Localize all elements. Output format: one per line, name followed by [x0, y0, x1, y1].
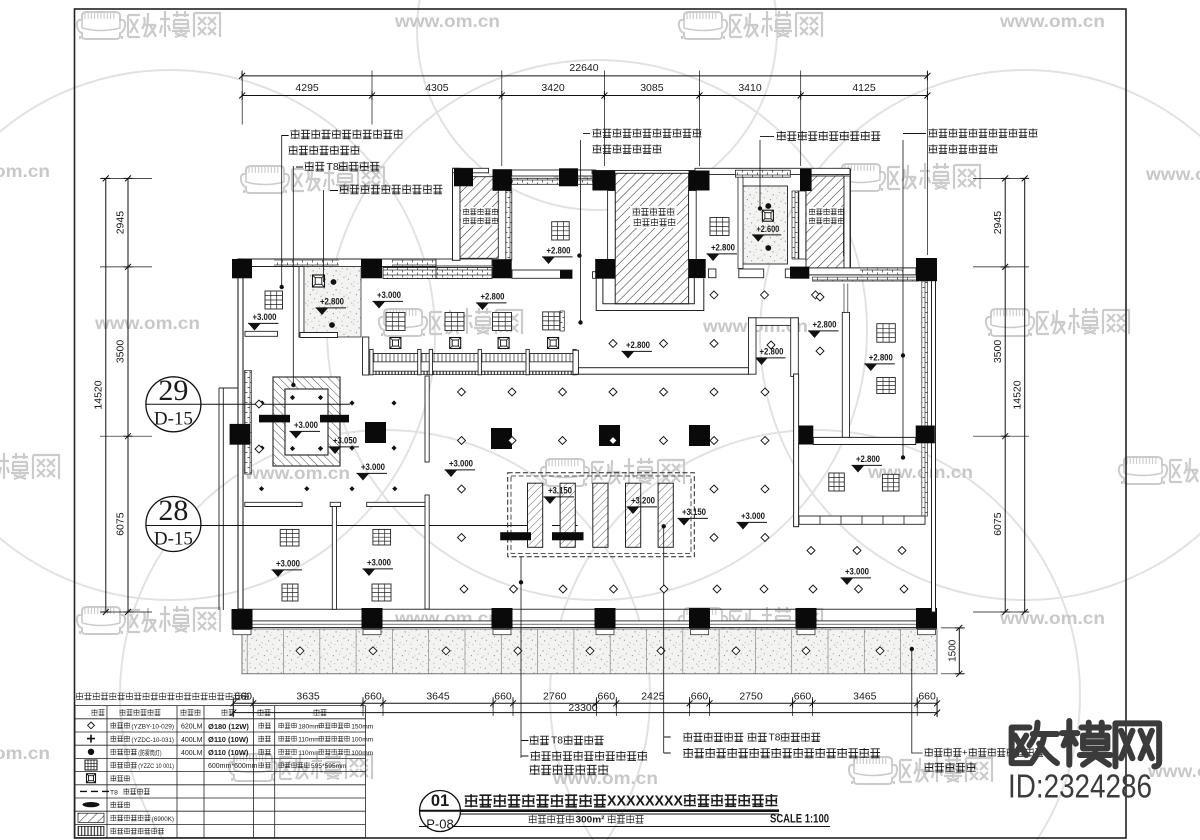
bottom storefront glazing	[242, 608, 931, 610]
svg-text:110mm: 110mm	[298, 750, 320, 757]
bottom wall columns	[232, 608, 938, 630]
central lightbox dashed boundary	[508, 473, 695, 557]
svg-text:2425: 2425	[641, 691, 665, 703]
title area text	[529, 815, 575, 824]
partition x334	[332, 507, 336, 610]
grille lamp panel	[280, 529, 299, 546]
svg-text:3410: 3410	[738, 82, 762, 94]
svg-text:+2.800: +2.800	[320, 297, 344, 307]
right overall dimension 14520	[1011, 175, 1029, 615]
svg-text:2945: 2945	[992, 211, 1004, 235]
legend row 2	[88, 749, 94, 755]
svg-text:14520: 14520	[1011, 380, 1023, 409]
elevation label +2.800	[542, 246, 573, 264]
svg-text:www.om.cn: www.om.cn	[999, 608, 1105, 628]
svg-text:+2.800: +2.800	[547, 246, 571, 256]
feature ceiling outer square hatched	[273, 377, 340, 466]
svg-text:660: 660	[794, 691, 812, 703]
svg-text:+3.000: +3.000	[253, 312, 277, 322]
svg-text:2945: 2945	[115, 211, 127, 235]
grille lamp panel	[710, 218, 729, 236]
svg-text:T8: T8	[551, 736, 563, 747]
svg-text:3465: 3465	[853, 691, 877, 703]
top-left exterior wall	[242, 259, 436, 267]
stairwell hatched - not in scope	[615, 173, 688, 303]
svg-text:www.om.cn: www.om.cn	[1145, 164, 1200, 184]
drawing title text	[465, 794, 607, 807]
svg-text:(YZZC 10 001): (YZZC 10 001)	[138, 763, 174, 770]
svg-text:+2.800: +2.800	[856, 454, 880, 464]
elevation label +2.600	[752, 224, 781, 242]
svg-text:100mm: 100mm	[351, 737, 373, 744]
svg-text:3420: 3420	[541, 82, 565, 94]
svg-text:www.om.cn: www.om.cn	[0, 743, 50, 763]
right 1500 dimension	[941, 625, 965, 677]
annotation bottom 1b: gypsum ceiling white paint	[531, 751, 648, 761]
svg-text:+2.800: +2.800	[813, 320, 837, 330]
top overall dimension 22640	[239, 62, 930, 80]
legend row 8	[78, 826, 104, 835]
annotation bottom 1: concealed T8 tube	[522, 741, 529, 757]
right toilet block top wall	[695, 168, 850, 174]
svg-text:660: 660	[494, 691, 512, 703]
svg-text:SCALE 1:100: SCALE 1:100	[770, 814, 829, 826]
counter posts	[370, 349, 576, 374]
elevation label +2.800	[476, 292, 507, 310]
svg-text:+3.000: +3.000	[845, 567, 869, 577]
leader to bottom annotation 2	[663, 526, 665, 753]
svg-text:+3.000: +3.000	[377, 290, 401, 300]
right segment dimension line	[992, 175, 1010, 615]
svg-text:T8: T8	[110, 790, 118, 797]
counter bottom rail hatched	[371, 371, 578, 374]
grille lamp panel	[552, 222, 570, 240]
left segment dimension line	[115, 175, 133, 615]
left exterior wall	[238, 259, 243, 609]
feature ceiling inner panel	[285, 389, 328, 455]
toilet partition wall	[506, 191, 512, 260]
svg-text:3635: 3635	[296, 691, 320, 703]
watermark row 1	[77, 11, 220, 39]
elevation label +3.000	[373, 290, 404, 308]
stair block bottom landing frame	[596, 278, 704, 310]
svg-text:www.om.cn: www.om.cn	[999, 11, 1105, 31]
grille lamp panel	[493, 313, 512, 331]
svg-text:595*595mm: 595*595mm	[311, 763, 347, 770]
left dimension extension lines	[100, 178, 152, 612]
stair block top wall	[592, 171, 710, 174]
partition x427	[425, 376, 429, 462]
svg-text:300m²: 300m²	[576, 814, 605, 825]
bottom dimension extension lines	[233, 697, 937, 716]
svg-text:400LM: 400LM	[181, 750, 203, 757]
elevation label +2.800	[707, 243, 738, 261]
grille lamp panel	[265, 291, 283, 309]
right room partition	[842, 312, 849, 437]
annotation bottom 2: white luminous membrane with T8	[664, 737, 671, 753]
downlight dots in lobby	[331, 279, 337, 285]
watermark row 5	[77, 606, 220, 634]
bottom overall dimension 23300	[230, 702, 940, 717]
leader lines with reference dots	[282, 135, 903, 457]
svg-text:D-15: D-15	[154, 529, 193, 550]
hall downlight grid	[710, 291, 718, 299]
note: rolling shutters aluminium louvres	[76, 692, 250, 700]
right toilet right wall	[844, 176, 850, 268]
legend row 7	[78, 813, 104, 822]
svg-text:22640: 22640	[569, 62, 598, 74]
svg-text:(防雾筒灯): (防雾筒灯)	[138, 748, 161, 757]
small downlights around feature	[290, 395, 295, 400]
svg-text:3645: 3645	[426, 691, 450, 703]
paving joints	[247, 629, 900, 674]
toilet room left wall	[738, 175, 743, 269]
svg-text:29: 29	[158, 374, 188, 407]
svg-text:660: 660	[918, 691, 936, 703]
right toilet room label	[807, 207, 843, 226]
grille lamp panel	[386, 313, 405, 331]
legend header	[91, 709, 104, 715]
svg-text:+: +	[962, 748, 968, 759]
right room storefront window	[799, 516, 925, 524]
toilet partition brick wall	[792, 191, 798, 259]
svg-text:2750: 2750	[739, 691, 763, 703]
left overall dimension 14520	[93, 175, 111, 615]
title block lines	[419, 809, 779, 812]
grille lamp panel	[877, 378, 896, 394]
svg-text:www.om.cn: www.om.cn	[394, 11, 500, 31]
annotation top-left: concealed T8 tube	[282, 136, 338, 191]
svg-text:+2.800: +2.800	[869, 353, 893, 363]
svg-text:(YZDC-10-031): (YZDC-10-031)	[131, 737, 174, 744]
legend row 4	[87, 774, 96, 783]
elevation label +2.800	[808, 320, 839, 338]
elevation label +3.000	[363, 558, 394, 576]
hall access panels	[390, 338, 401, 349]
svg-text:660: 660	[364, 691, 382, 703]
stair block east wall	[689, 191, 697, 262]
elevation label +3.000	[248, 312, 279, 330]
downlight dots	[765, 203, 771, 209]
svg-text:180mm: 180mm	[298, 723, 320, 730]
elevation label +2.800	[852, 454, 883, 472]
section marker circle 28 D-15	[146, 494, 531, 552]
svg-text:400LM: 400LM	[181, 737, 203, 744]
svg-text:+3.000: +3.000	[367, 558, 391, 568]
right toilet hatched room	[806, 176, 844, 268]
lightbox slats hatched	[528, 483, 543, 547]
left toilet block top wall	[453, 168, 489, 173]
annotation top-mid: toilet moistureproof ceiling	[777, 131, 881, 141]
annotation top-left: toilet moistureproof ceiling	[340, 184, 443, 194]
wall segment corridor south	[512, 270, 572, 278]
svg-text:4125: 4125	[852, 82, 876, 94]
svg-text:110mm: 110mm	[298, 737, 320, 744]
svg-text:P-08: P-08	[426, 817, 453, 832]
grille lamp panel	[543, 312, 560, 330]
svg-text:660: 660	[691, 691, 709, 703]
svg-text:600mm*600mm: 600mm*600mm	[208, 763, 258, 770]
right toilet duct recess	[844, 208, 850, 256]
svg-text:XXXXXXXX: XXXXXXXX	[607, 793, 683, 809]
svg-text:23300: 23300	[568, 702, 597, 714]
pier below toilet block	[560, 311, 564, 331]
elevation label +2.800	[622, 340, 653, 358]
svg-text:www.om.cn: www.om.cn	[94, 313, 200, 333]
elevation label +3.000	[290, 420, 321, 438]
svg-text:4295: 4295	[295, 82, 319, 94]
legend row 6	[83, 802, 100, 807]
svg-text:ID:2324286: ID:2324286	[1008, 768, 1152, 805]
svg-text:620LM: 620LM	[181, 724, 203, 731]
annotation top-right: gypsum board ceiling	[929, 128, 1038, 137]
toilet top wall brick	[735, 170, 790, 177]
annotation top-center: gypsum board ceiling	[593, 128, 702, 137]
svg-text:1500: 1500	[947, 639, 958, 662]
svg-text:28: 28	[158, 494, 188, 527]
elevation label +3.150	[544, 486, 575, 504]
right exterior wall outer line	[932, 279, 936, 612]
svg-text:+3.000: +3.000	[276, 559, 300, 569]
access panel symbol	[313, 275, 325, 287]
legend row 1	[87, 735, 95, 743]
svg-text:+2.600: +2.600	[757, 224, 780, 234]
svg-text:150mm: 150mm	[351, 723, 373, 730]
svg-text:+2.800: +2.800	[626, 340, 650, 350]
wall stub left of counter	[363, 337, 369, 375]
svg-text:+3.150: +3.150	[548, 486, 572, 496]
column bases	[233, 630, 936, 635]
svg-text:6075: 6075	[992, 512, 1004, 536]
svg-text:+3.000: +3.000	[361, 462, 385, 472]
leader to bottom annotation 3	[912, 649, 923, 753]
small room walls	[749, 318, 799, 326]
top-right bulkhead band	[813, 277, 919, 281]
wall band below top-left wall	[383, 268, 455, 279]
elevation label +2.800	[864, 353, 895, 371]
wall y334 segments	[245, 331, 338, 337]
svg-text:T8: T8	[327, 161, 339, 173]
svg-text:+3.000: +3.000	[741, 511, 765, 521]
svg-text:Ø110 (10W): Ø110 (10W)	[208, 735, 249, 744]
fan symbol	[762, 210, 773, 221]
svg-text:(6900K): (6900K)	[152, 816, 174, 823]
svg-text:www.om.cn: www.om.cn	[552, 768, 658, 788]
wall segments south of right corridor	[708, 269, 716, 278]
elevation label +2.800	[316, 297, 347, 315]
svg-text:Ø180 (12W): Ø180 (12W)	[208, 722, 249, 731]
grille lamp panel	[373, 529, 391, 545]
elevation label +3.200	[627, 496, 658, 514]
left wall bulkhead strip	[245, 370, 252, 474]
legend row 5	[80, 790, 109, 792]
elevation label +3.000	[272, 559, 303, 577]
svg-text:+2.800: +2.800	[481, 292, 505, 302]
svg-text:660: 660	[598, 691, 616, 703]
svg-text:3500: 3500	[115, 340, 127, 364]
elevation label +3.000	[737, 511, 768, 529]
elevation label +3.150	[678, 507, 709, 525]
svg-text:+3.000: +3.000	[449, 459, 473, 469]
svg-text:www.om.cn: www.om.cn	[0, 161, 50, 181]
legend table grid	[75, 706, 366, 838]
stippled lobby room +2.800	[304, 267, 361, 338]
watermark row 4	[0, 453, 59, 481]
svg-text:100mm: 100mm	[351, 750, 373, 757]
bottom segment dimension line	[230, 691, 940, 708]
top dimension extension lines	[242, 71, 927, 256]
legend row 0	[88, 722, 95, 729]
grille lamp panel	[445, 313, 464, 331]
elevation label +3.000	[445, 459, 476, 477]
right dimension extension lines	[973, 178, 1029, 612]
grille lamp panel	[829, 473, 845, 491]
svg-text:14520: 14520	[93, 380, 105, 409]
svg-text:4305: 4305	[425, 82, 449, 94]
elevation label +3.000	[357, 462, 388, 480]
leader to bottom annotation 1	[520, 557, 522, 758]
svg-text:+2.800: +2.800	[711, 243, 735, 253]
annotation bottom 3: angle steel base aluminium panel	[925, 748, 962, 757]
wall y504 segments	[245, 502, 427, 506]
toilet room stippled +2.600	[743, 186, 788, 264]
drawing number circle 01 P-08	[420, 791, 461, 832]
svg-text:D-15: D-15	[154, 409, 193, 430]
toilet room hatched - not in scope	[460, 177, 498, 259]
section marker circle 29 D-15	[146, 374, 350, 432]
section line 28 extra segment	[552, 525, 578, 527]
grille lamp panel	[372, 584, 391, 601]
svg-text:01: 01	[431, 792, 449, 810]
svg-text:Ø110 (10W): Ø110 (10W)	[208, 748, 249, 757]
toilet room label	[461, 207, 497, 226]
pilaster lines outside left wall	[219, 388, 238, 610]
right exterior wall brick strip	[922, 281, 928, 516]
svg-text:(YZBY-10-029): (YZBY-10-029)	[131, 724, 174, 731]
stairwell label	[630, 206, 677, 228]
counter top rail hatched	[371, 354, 578, 362]
feature black light bars	[259, 415, 290, 423]
elevation label +3.000	[841, 567, 872, 585]
long interior wall	[578, 368, 748, 375]
svg-text:3500: 3500	[992, 340, 1004, 364]
stair block west wall	[608, 191, 616, 262]
annotation top-left: gypsum board ceiling	[291, 129, 403, 139]
top-right exterior wall	[794, 268, 916, 275]
svg-text:+3.150: +3.150	[682, 507, 706, 517]
svg-text:T8: T8	[769, 733, 781, 744]
partition wall vertical x300	[299, 267, 304, 338]
right block west wall	[794, 374, 799, 527]
left toilet block left wall	[453, 168, 461, 260]
counter middle band	[371, 362, 578, 371]
svg-text:+3.200: +3.200	[631, 496, 655, 506]
downlights in band	[296, 647, 304, 655]
wall left of toilet block	[436, 259, 492, 266]
grille lamp panel	[877, 324, 896, 343]
legend row 3	[85, 760, 97, 770]
columns mid row y435	[230, 422, 935, 449]
annotation bottom 2b: gypsum ceiling white paint	[683, 748, 880, 758]
svg-text:3085: 3085	[640, 82, 664, 94]
svg-text:6075: 6075	[115, 512, 127, 536]
columns at mid-wall line y267	[232, 258, 937, 281]
exterior paved band with stipple	[242, 629, 937, 674]
structural columns upper blocks	[454, 168, 812, 278]
svg-text:+3.000: +3.000	[294, 420, 318, 430]
lightbox black bars	[500, 532, 531, 540]
elevation label +2.800	[755, 347, 786, 365]
elevation label +3.050	[329, 436, 360, 454]
right rooms horizontal wall	[813, 437, 915, 444]
svg-text:2760: 2760	[543, 691, 567, 703]
door jamb block	[560, 270, 572, 278]
site watermark logo text	[1012, 723, 1057, 764]
grille lamp panel	[282, 584, 298, 601]
top segment dimension line	[239, 82, 930, 100]
grille lamp panel	[882, 474, 899, 491]
svg-text:+3.050: +3.050	[333, 436, 357, 446]
small downlights row lobby	[259, 486, 264, 491]
annotation bottom 3b: see section drawing	[924, 762, 976, 772]
